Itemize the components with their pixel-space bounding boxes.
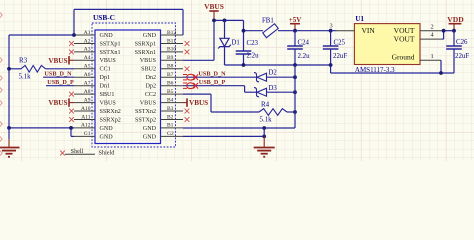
svg-text:22uF: 22uF <box>333 53 347 60</box>
svg-text:R4: R4 <box>261 101 270 109</box>
svg-text:SBU2: SBU2 <box>141 67 156 73</box>
svg-text:SSRXn1: SSRXn1 <box>135 50 156 56</box>
svg-text:B6: B6 <box>167 81 174 87</box>
svg-text:Dn1: Dn1 <box>100 84 111 90</box>
svg-text:GND: GND <box>100 33 114 39</box>
svg-text:Ground: Ground <box>392 53 415 62</box>
svg-text:D3: D3 <box>269 85 278 92</box>
svg-text:VBUS: VBUS <box>48 57 67 65</box>
svg-text:1: 1 <box>431 53 434 60</box>
svg-text:VBUS: VBUS <box>100 58 117 64</box>
svg-text:+5V: +5V <box>289 16 302 24</box>
svg-text:5.1k: 5.1k <box>19 73 32 80</box>
svg-text:SSTXn1: SSTXn1 <box>100 50 121 56</box>
svg-text:GND: GND <box>100 134 114 140</box>
svg-text:Dn2: Dn2 <box>146 75 157 81</box>
svg-text:Shell: Shell <box>71 148 84 155</box>
svg-text:C25: C25 <box>334 40 346 47</box>
svg-text:B8: B8 <box>167 64 174 70</box>
svg-text:D1: D1 <box>232 39 240 46</box>
svg-text:G2: G2 <box>167 131 174 137</box>
svg-text:GND: GND <box>143 134 157 140</box>
svg-text:B7: B7 <box>167 72 174 78</box>
svg-text:USB_D_N: USB_D_N <box>44 71 72 78</box>
svg-text:A11: A11 <box>81 114 91 120</box>
svg-text:GND: GND <box>143 126 157 132</box>
svg-text:SSRXp2: SSRXp2 <box>100 117 121 123</box>
svg-text:B1: B1 <box>167 123 174 129</box>
svg-text:A8: A8 <box>84 89 91 95</box>
svg-text:USB_D_P: USB_D_P <box>47 79 74 86</box>
svg-text:VOUT: VOUT <box>394 35 415 44</box>
svg-text:A12: A12 <box>81 123 91 129</box>
svg-text:3: 3 <box>330 23 333 30</box>
svg-text:2: 2 <box>431 23 434 30</box>
svg-text:SSRXp1: SSRXp1 <box>135 41 156 47</box>
svg-text:SSTXp2: SSTXp2 <box>135 117 156 123</box>
svg-text:B4: B4 <box>167 97 174 103</box>
svg-text:G1: G1 <box>84 131 91 137</box>
svg-text:22uF: 22uF <box>455 53 469 60</box>
svg-text:VBUS: VBUS <box>140 58 157 64</box>
svg-text:FB1: FB1 <box>262 17 274 24</box>
svg-text:GND: GND <box>143 33 157 39</box>
svg-text:C24: C24 <box>298 40 310 47</box>
svg-text:USB_D_N: USB_D_N <box>198 70 226 77</box>
svg-text:Dp2: Dp2 <box>146 84 157 90</box>
svg-text:A6: A6 <box>84 72 91 78</box>
svg-text:VIN: VIN <box>362 26 376 35</box>
svg-text:U1: U1 <box>355 15 364 23</box>
svg-text:B3: B3 <box>167 106 174 112</box>
svg-text:R3: R3 <box>19 56 28 64</box>
svg-text:A1: A1 <box>84 30 91 36</box>
svg-text:C26: C26 <box>456 39 468 46</box>
svg-text:C23: C23 <box>247 40 259 47</box>
svg-text:GND: GND <box>100 126 114 132</box>
svg-text:A4: A4 <box>84 55 91 61</box>
svg-text:SSRXn2: SSRXn2 <box>100 109 121 115</box>
svg-text:A10: A10 <box>81 106 91 112</box>
svg-text:B9: B9 <box>167 55 174 61</box>
svg-text:VBUS: VBUS <box>140 101 157 107</box>
svg-text:A5: A5 <box>84 64 91 70</box>
svg-text:A7: A7 <box>84 81 91 87</box>
svg-text:B11: B11 <box>167 38 176 44</box>
svg-text:B10: B10 <box>167 47 176 53</box>
svg-text:D2: D2 <box>269 69 278 76</box>
svg-text:VBUS: VBUS <box>189 99 208 107</box>
svg-text:Dp1: Dp1 <box>100 75 111 81</box>
svg-text:SBU1: SBU1 <box>100 92 115 98</box>
svg-text:A3: A3 <box>84 47 91 53</box>
svg-text:USB_D_P: USB_D_P <box>199 79 226 86</box>
svg-text:CC2: CC2 <box>145 92 156 98</box>
svg-text:5.1k: 5.1k <box>260 117 273 124</box>
svg-text:2.2u: 2.2u <box>247 53 260 60</box>
svg-text:VDD: VDD <box>447 15 464 24</box>
svg-text:AMS1117-3.3: AMS1117-3.3 <box>355 66 395 74</box>
svg-text:SSTXp1: SSTXp1 <box>100 41 121 47</box>
svg-text:B12: B12 <box>167 30 176 36</box>
svg-text:2.2u: 2.2u <box>298 53 311 60</box>
svg-text:VBUS: VBUS <box>204 2 224 11</box>
svg-text:VBUS: VBUS <box>100 101 117 107</box>
svg-text:USB-C: USB-C <box>93 13 115 22</box>
svg-text:B2: B2 <box>167 114 174 120</box>
svg-text:Shield: Shield <box>99 150 116 157</box>
svg-text:VBUS: VBUS <box>48 99 67 107</box>
svg-text:SSTXn2: SSTXn2 <box>135 109 156 115</box>
svg-text:A9: A9 <box>84 97 91 103</box>
svg-text:CC1: CC1 <box>100 67 111 73</box>
svg-text:B5: B5 <box>167 89 174 95</box>
svg-text:A2: A2 <box>84 38 91 44</box>
